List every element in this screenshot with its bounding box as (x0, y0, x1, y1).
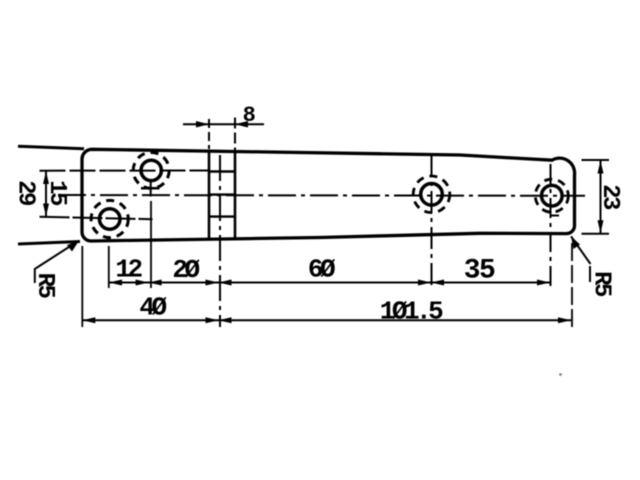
svg-text:15: 15 (43, 180, 70, 206)
svg-text:29: 29 (12, 180, 39, 205)
svg-text:4Ø: 4Ø (139, 293, 166, 323)
svg-text:R5: R5 (588, 271, 615, 297)
svg-text:23: 23 (596, 184, 623, 210)
svg-text:35: 35 (464, 256, 495, 287)
svg-text:6Ø: 6Ø (308, 255, 335, 285)
svg-text:R5: R5 (31, 273, 58, 299)
svg-text:1Ø1.5: 1Ø1.5 (380, 297, 443, 327)
svg-text:12: 12 (115, 255, 142, 285)
svg-text:2Ø: 2Ø (172, 255, 199, 285)
